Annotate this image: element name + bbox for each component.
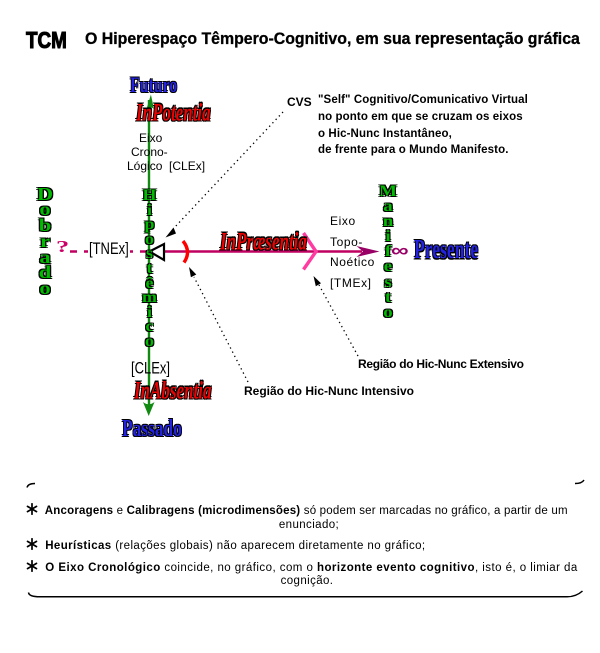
pink fletching mark on axis <box>304 233 317 270</box>
topo-noetic axis right arrowhead <box>357 246 380 257</box>
chrono axis down arrowhead <box>143 402 155 416</box>
label InAbsentia <box>134 377 211 406</box>
CVS triangle marker at axis crossing <box>150 244 165 260</box>
label Dobrado (vertical) <box>31 187 59 298</box>
label InPraesentia <box>220 228 307 257</box>
notes text block <box>26 503 600 589</box>
label Passado <box>122 414 182 443</box>
dotted arrow from Intensivo label to red arc <box>189 267 248 382</box>
label [TNEx] <box>88 239 130 258</box>
label Eixo Topo-Noetico [TMEx] <box>330 211 375 293</box>
dashed TNEx axis on left <box>70 250 148 252</box>
label Regiao do Hic-Nunc Intensivo <box>244 384 414 398</box>
label Hipostemico (vertical) <box>138 189 162 350</box>
dotted arrow from CVS label to triangle <box>166 112 284 238</box>
CVS description block <box>318 92 528 159</box>
chrono axis up arrowhead <box>147 95 155 110</box>
notes box top-left corner curl <box>27 484 35 488</box>
title TCM <box>26 27 67 54</box>
dotted arrow from Extensivo label to TMEx label <box>314 276 359 356</box>
label CVS <box>287 95 312 109</box>
label Eixo Crono-Logico [CLEx] <box>127 132 205 173</box>
notes box top-right corner curl <box>575 480 584 484</box>
label Regiao do Hic-Nunc Extensivo <box>358 357 524 371</box>
question mark <box>56 237 69 257</box>
label Manifesto (vertical) <box>377 184 398 320</box>
title main heading <box>85 30 580 49</box>
infinity symbol <box>391 240 409 262</box>
notes box bottom line with curled ends <box>29 591 583 597</box>
label InPotentia <box>136 99 211 128</box>
chrono axis vertical line (CLEx) <box>148 100 150 405</box>
red arc marker (intensive region) <box>183 241 188 263</box>
label Presente <box>414 233 478 266</box>
label Futuro <box>130 72 177 98</box>
topo-noetic axis horizontal line (TMEx) <box>149 250 362 253</box>
label [CLEx] lower <box>131 358 170 378</box>
